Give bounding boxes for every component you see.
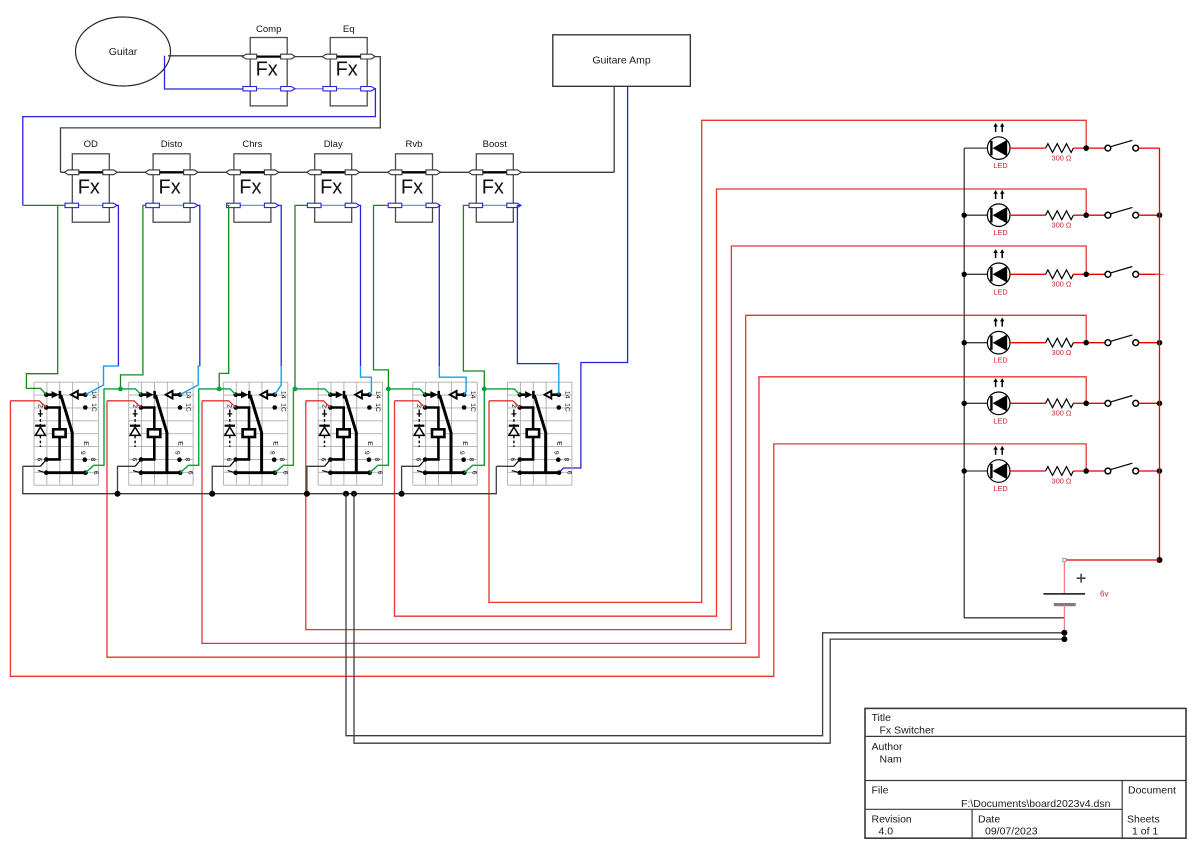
wire LED D3 anode to resistor (red)	[1010, 273, 1046, 275]
effect box Boost output pin (right, signal row)	[507, 170, 521, 175]
LED D1 circle	[987, 137, 1010, 160]
svg-text:LED: LED	[993, 228, 1007, 237]
relay K1 bottom thick wire to pin 8	[46, 471, 85, 474]
rail junction node right row 5	[1157, 401, 1163, 407]
svg-text:2: 2	[131, 404, 138, 408]
svg-text:8: 8	[89, 458, 96, 462]
wire green pedal4 send vertical	[295, 205, 307, 389]
switch SW2 throw circle	[1133, 212, 1139, 218]
relay K1 flyback diode cathode bar	[35, 425, 45, 427]
effect box Disto: wire through (black thick)	[147, 171, 196, 173]
svg-text:9: 9	[174, 451, 181, 455]
relay K3 coil rectangle	[243, 429, 255, 437]
svg-text:1C: 1C	[279, 403, 286, 412]
effect box Rvb output pin (right, signal row)	[426, 170, 440, 175]
effect box Boost input pin (left, signal row)	[468, 170, 482, 175]
svg-text:Fx: Fx	[78, 177, 100, 199]
svg-text:6: 6	[471, 471, 478, 475]
relay K5 contact arm diode (filled)	[425, 393, 430, 396]
rail junction node right row 4	[1157, 340, 1163, 346]
svg-text:Fx: Fx	[482, 177, 504, 199]
LED D6 triangle	[993, 463, 1008, 480]
relay K1 pin 14 open triangle contact	[71, 391, 78, 399]
effect box Eq input pin (left, signal row)	[322, 54, 336, 59]
relay K1 pin 1 throw tick	[38, 471, 45, 473]
effect box Disto send pin (right, blue row)	[184, 203, 198, 207]
relay K5 coil top lead (thick)	[425, 408, 438, 430]
wire green branch to relay2 pin8	[180, 389, 219, 473]
switch SW6 throw circle	[1133, 468, 1139, 474]
junction node row 4	[1083, 340, 1089, 346]
wire green branch to relay6 common	[484, 389, 520, 395]
effect box Comp return pin (left, blue row)	[243, 87, 257, 91]
wire relay6 pin1 to bus	[496, 465, 514, 467]
effect box OD outline	[72, 154, 109, 222]
LED D3 circle	[987, 263, 1010, 286]
switch common rail (red)	[1159, 148, 1161, 560]
effect box Dlay: wire through (blue)	[309, 204, 358, 206]
wire blue pedal2 output vertical	[198, 205, 200, 366]
wire blue pedal3 output vertical	[278, 205, 281, 366]
relay K1 pin 16 dot	[83, 405, 88, 410]
relay K2 pin 9 dot	[177, 457, 182, 462]
svg-text:1C: 1C	[185, 403, 192, 412]
green junction node pedal4	[293, 387, 298, 392]
wire Eq output down-left to pedal row (black)	[61, 57, 381, 173]
svg-text:Document: Document	[1128, 784, 1176, 796]
svg-text:LED: LED	[993, 287, 1007, 296]
LED D4 cathode wire	[964, 342, 987, 344]
relay K1 flyback diode triangle	[35, 427, 45, 435]
effect box Rvb return pin (left, blue row)	[388, 203, 402, 207]
wire blue pedal1 output vertical	[117, 205, 119, 366]
LED D5 cathode wire	[964, 402, 987, 404]
svg-text:Revision: Revision	[872, 813, 912, 825]
effect box Rvb send pin (right, blue row)	[426, 203, 440, 207]
relay K2 flyback diode triangle	[130, 427, 140, 435]
effect box Comp send pin (right, blue row)	[281, 87, 295, 91]
wire red relay4 coil feed into pin2	[306, 401, 331, 408]
wire cyan pedal1 to relay1 pin14	[85, 366, 118, 395]
relay K5 common pin 13 dot	[423, 392, 428, 397]
relay K6 bottom thick wire to pin 8	[520, 471, 559, 474]
wire red relay1 coil feed into pin2	[10, 401, 46, 408]
effect box Comp input pin (left, signal row)	[242, 54, 256, 59]
junction node row 6	[1083, 468, 1089, 474]
svg-text:LED: LED	[993, 356, 1007, 365]
wire switch SW3 to rail (red)	[1139, 273, 1160, 275]
svg-text:E: E	[177, 441, 184, 446]
wire relay1 pin1 to bus	[23, 465, 41, 467]
relay K3 pin 1 dot	[233, 470, 238, 475]
battery negative junction nodes	[1061, 630, 1067, 636]
LED D4 circle	[987, 331, 1010, 354]
relay K4 bottom thick wire to pin 8	[330, 471, 369, 474]
resistor R6 zigzag	[1046, 467, 1074, 476]
relay K4 coil + pin 2 dot	[328, 405, 333, 410]
relay K2 pin 6 dot	[139, 457, 144, 462]
relay K4 flyback diode triangle	[320, 427, 330, 435]
svg-text:6: 6	[281, 471, 288, 475]
relay K4 pin 9 dot	[367, 457, 372, 462]
svg-text:E: E	[556, 441, 563, 446]
green junction node pedal3	[217, 387, 222, 392]
svg-text:Title: Title	[872, 712, 892, 724]
LED D6 emission arrows	[995, 449, 997, 455]
relay K5 grid	[413, 382, 477, 485]
guitar (source) ellipse	[76, 17, 171, 86]
relay K3 contact arm (thick diagonal)	[250, 395, 261, 472]
relay K3 pin 14 lead and dot	[267, 393, 275, 396]
svg-text:6: 6	[36, 458, 43, 462]
relay K4 pin 1 dot	[328, 470, 333, 475]
svg-text:2: 2	[320, 404, 327, 408]
svg-text:8: 8	[184, 458, 191, 462]
svg-text:Fx: Fx	[401, 177, 423, 199]
relay K5 coil + pin 2 dot	[423, 405, 428, 410]
relay K4 coil rectangle	[337, 429, 349, 437]
relay K1 flyback diode dashed lead bottom	[39, 436, 41, 447]
LED D1 cathode wire	[964, 147, 987, 149]
svg-text:Fx: Fx	[158, 177, 180, 199]
svg-text:9: 9	[268, 451, 275, 455]
wire green pedal6 send vertical	[463, 205, 484, 389]
battery B1 negative plate	[1054, 603, 1076, 606]
relay K6 flyback diode triangle	[509, 427, 519, 435]
LED D4 triangle	[993, 334, 1008, 351]
effect box Boost outline	[476, 154, 513, 222]
svg-text:F:\Documents\board2023v4.dsn: F:\Documents\board2023v4.dsn	[961, 798, 1111, 810]
wire bus to battery negative B (black)	[354, 494, 1064, 744]
relay K3 flyback diode triangle	[225, 427, 235, 435]
svg-text:14: 14	[469, 391, 476, 399]
LED D2 emission arrows	[995, 193, 997, 199]
effect box OD return pin (left, blue row)	[65, 203, 79, 207]
effect box Comp: wire through (blue)	[244, 88, 293, 90]
wire green branch to relay4 common	[295, 389, 330, 395]
svg-text:OD: OD	[84, 139, 98, 150]
bus junction node relay4	[304, 491, 310, 497]
relay K6 pin 6 dot	[518, 457, 523, 462]
relay K1 flyback diode dashed lead top	[39, 410, 41, 425]
relay K6 pin 1 dot	[518, 470, 523, 475]
bus tee nodes to battery return	[343, 491, 349, 497]
wire relay5 pin1 to bus	[402, 466, 420, 493]
relay K6 flyback diode dashed lead bottom	[513, 436, 515, 447]
effect box Comp: wire through (black thick)	[244, 55, 293, 57]
pedal signal chain wire (black)	[61, 171, 615, 173]
wire red relay1 to LED row 6 (nested loop)	[10, 401, 1086, 677]
svg-text:Date: Date	[978, 813, 1000, 825]
relay K5 pin 9 dot	[461, 457, 466, 462]
battery positive node	[1157, 557, 1163, 563]
LED D3 emission arrows	[995, 253, 997, 259]
effect box Disto input pin (left, signal row)	[145, 170, 159, 175]
relay K5 pin 1 dot	[423, 470, 428, 475]
relay K5 flyback diode cathode bar	[414, 425, 424, 427]
relay K1 pin 1 dot	[44, 470, 49, 475]
LED D6 circle	[987, 460, 1010, 483]
relay K6 pin 14 lead and dot	[551, 393, 559, 396]
svg-text:Boost: Boost	[483, 139, 508, 150]
relay K6 pin 1 throw tick	[512, 471, 519, 473]
wire amp input from Boost (black)	[613, 86, 615, 172]
relay K4 flyback diode dashed lead top	[324, 410, 326, 425]
wire LED D4 anode to resistor (red)	[1010, 342, 1046, 344]
svg-text:Fx: Fx	[320, 177, 342, 199]
wire green pedal1 to relay1 common	[26, 205, 57, 394]
effect box Chrs: wire through (blue)	[228, 204, 277, 206]
svg-text:1C: 1C	[564, 403, 571, 412]
switch SW1 throw circle	[1133, 145, 1139, 151]
switch SW3 pole circle	[1105, 271, 1111, 277]
LED D5 triangle	[993, 395, 1008, 412]
wire cyan pedal5 to relay5 pin14	[439, 366, 466, 395]
wire relay4 pin1 to bus	[307, 466, 325, 493]
relay K2 coil rectangle	[148, 429, 160, 437]
wire LED D2 anode to resistor (red)	[1010, 214, 1046, 216]
wire LED D1 anode to resistor (red)	[1010, 147, 1046, 149]
relay K6 flyback diode cathode bar	[509, 425, 519, 427]
wire cyan Boost to relay6 pin14	[557, 364, 559, 395]
svg-text:14: 14	[564, 391, 571, 399]
relay K6 flyback diode dashed lead top	[513, 410, 515, 425]
effect box Eq return pin (left, blue row)	[323, 87, 337, 91]
relay K3 plus polarity mark	[227, 413, 232, 415]
svg-text:8: 8	[468, 458, 475, 462]
relay K6 coil bottom lead (thick)	[520, 437, 533, 459]
relay K5 bottom thick wire to pin 8	[425, 471, 464, 474]
resistor R5 zigzag	[1046, 399, 1074, 408]
svg-text:300 Ω: 300 Ω	[1052, 476, 1072, 485]
switch SW4 pole circle	[1105, 340, 1111, 346]
relay K1 coil top lead (thick)	[46, 408, 59, 430]
relay K2 flyback diode cathode bar	[130, 425, 140, 427]
relay K2 contact arm (thick diagonal)	[156, 395, 167, 472]
rail junction node right row 6	[1157, 468, 1163, 474]
svg-text:Fx: Fx	[336, 59, 358, 81]
title block outer border	[865, 708, 1186, 838]
relay K2 common pin 13 dot	[139, 392, 144, 397]
svg-text:8: 8	[373, 458, 380, 462]
LED D5 circle	[987, 392, 1010, 415]
svg-text:2: 2	[36, 404, 43, 408]
svg-text:300 Ω: 300 Ω	[1052, 280, 1072, 289]
wire relay2 pin1 to bus	[118, 466, 136, 493]
switch SW3 throw circle	[1133, 271, 1139, 277]
wire green pedal3 send vertical	[219, 205, 229, 389]
relay K4 pin 6 dot	[328, 457, 333, 462]
svg-text:Sheets: Sheets	[1127, 813, 1160, 825]
wire green branch to relay4 pin8	[370, 389, 389, 473]
svg-text:1C: 1C	[374, 403, 381, 412]
relay K5 contact arm (thick diagonal)	[440, 395, 451, 472]
effect box Chrs send pin (right, blue row)	[264, 203, 278, 207]
wire red relay3 coil feed into pin2	[202, 401, 236, 408]
rail junction node right row 2	[1157, 212, 1163, 218]
relay K4 common pin 13 dot	[328, 392, 333, 397]
relay K4 pin 14 lead and dot	[362, 393, 370, 396]
relay K6 grid	[508, 382, 572, 485]
effect box Chrs output pin (right, signal row)	[264, 170, 278, 175]
effect box Eq outline	[330, 38, 367, 106]
relay K2 pin 16 dot	[178, 405, 183, 410]
LED D1 emission arrows	[995, 126, 997, 132]
wire cyan pedal4 to relay4 pin14	[361, 366, 372, 395]
effect box Boost: wire through (blue)	[470, 204, 519, 206]
wire switch SW6 to rail (red)	[1139, 470, 1160, 472]
wire LED D6 anode to resistor (red)	[1010, 470, 1046, 472]
resistor R4 zigzag	[1046, 338, 1074, 347]
relay K5 coil bottom lead (thick)	[425, 437, 438, 459]
junction node row 2	[1083, 212, 1089, 218]
effect box Comp output pin (right, signal row)	[281, 54, 295, 59]
relay K3 pin 14 open triangle contact	[260, 391, 267, 399]
relay K5 pin 14 lead and dot	[457, 393, 465, 396]
relay K3 pin 6 dot	[233, 457, 238, 462]
svg-text:1 of 1: 1 of 1	[1132, 826, 1158, 838]
svg-text:9: 9	[458, 451, 465, 455]
relay K3 pin 9 dot	[272, 457, 277, 462]
svg-text:Guitare Amp: Guitare Amp	[592, 55, 651, 67]
relay K4 contact arm (thick diagonal)	[345, 395, 356, 472]
relay K4 flyback diode cathode bar	[319, 425, 329, 427]
svg-text:Comp: Comp	[256, 24, 281, 35]
wire green branch to relay3 common	[219, 389, 236, 395]
wire red relay2 to LED row 5 (nested loop)	[107, 377, 1086, 657]
switch SW2 lever	[1111, 207, 1133, 213]
svg-text:8: 8	[278, 458, 285, 462]
LED D2 cathode bar	[990, 208, 992, 222]
LED cathode rail (black)	[964, 148, 1064, 618]
relay K3 grid	[223, 382, 287, 485]
switch SW4 lever	[1111, 335, 1133, 341]
wire red relay2 coil feed into pin2	[107, 401, 141, 408]
wire guitar send drop (blue)	[165, 56, 244, 89]
relay K2 plus polarity mark	[133, 413, 138, 415]
effect box OD: wire through (blue)	[66, 204, 115, 206]
effect box OD: wire through (black thick)	[66, 171, 115, 173]
svg-text:Disto: Disto	[161, 139, 183, 150]
LED D4 emission arrows	[995, 321, 997, 327]
effect box OD output pin (right, signal row)	[103, 170, 117, 175]
green junction node pedal6	[482, 387, 487, 392]
wire resistor R4 to junction (red)	[1073, 342, 1105, 344]
wire switch SW1 to rail (red)	[1139, 147, 1160, 149]
relay K4 coil bottom lead (thick)	[330, 437, 343, 459]
wire resistor R5 to junction (red)	[1073, 402, 1105, 404]
relay K6 coil top lead (thick)	[520, 408, 533, 430]
relay K4 pin 1 throw tick	[322, 471, 329, 473]
effect box Rvb: wire through (blue)	[390, 204, 439, 206]
switch SW5 lever	[1111, 396, 1133, 402]
relay K1 pin 9 dot	[83, 457, 88, 462]
switch SW6 pole circle	[1105, 468, 1111, 474]
svg-text:9: 9	[79, 451, 86, 455]
switch SW5 pole circle	[1105, 400, 1111, 406]
svg-text:File: File	[872, 784, 889, 796]
relay K5 pin 1 throw tick	[417, 471, 424, 473]
svg-text:Author: Author	[872, 741, 903, 753]
resistor R1 zigzag	[1046, 144, 1074, 153]
wire battery positive to rail (red)	[1064, 559, 1159, 561]
wire blue pedal6 output (Boost)	[517, 205, 557, 363]
relay K1 plus polarity mark	[38, 413, 43, 415]
battery B1 positive plate	[1043, 593, 1085, 595]
relay K2 pin 1 throw tick	[133, 471, 140, 473]
wire green branch to relay2 common	[121, 389, 142, 395]
effect box Dlay: wire through (black thick)	[309, 171, 358, 173]
relay K1 grid	[34, 382, 98, 485]
wire switch SW5 to rail (red)	[1139, 402, 1160, 404]
effect box Eq send pin (right, blue row)	[361, 87, 375, 91]
LED D5 cathode bar	[990, 396, 992, 410]
LED D3 cathode wire	[964, 273, 987, 275]
svg-text:2: 2	[415, 404, 422, 408]
svg-text:300 Ω: 300 Ω	[1052, 221, 1072, 230]
effect box Chrs outline	[234, 154, 271, 222]
effect box Chrs input pin (left, signal row)	[226, 170, 240, 175]
svg-text:1C: 1C	[90, 403, 97, 412]
relay K1 contact arm (thick diagonal)	[61, 395, 72, 472]
rail junction node row 6	[962, 468, 967, 473]
relay K1 coil bottom lead (thick)	[46, 437, 59, 459]
relay K6 pin 14 open triangle contact	[545, 391, 552, 399]
svg-text:6v: 6v	[1100, 590, 1108, 599]
wire red relay6 to LED row 1 (nested loop)	[489, 120, 1086, 602]
rail junction node row 5	[962, 401, 967, 406]
effect box Eq output pin (right, signal row)	[361, 54, 375, 59]
relay K3 coil bottom lead (thick)	[236, 437, 249, 459]
svg-text:6: 6	[187, 471, 194, 475]
relay K4 switch throw to pin 6	[325, 460, 331, 467]
relay K2 coil bottom lead (thick)	[141, 437, 154, 459]
relay ground bus (black)	[23, 466, 497, 493]
wire switch SW2 to rail (red)	[1139, 214, 1160, 216]
title block column dividers	[1121, 781, 1123, 839]
wire relay3 pin1 to bus	[212, 466, 230, 493]
relay K6 plus polarity mark	[511, 413, 516, 415]
svg-text:LED: LED	[993, 161, 1007, 170]
svg-text:Rvb: Rvb	[406, 139, 423, 150]
wire green branch to relay1 pin8	[86, 389, 121, 473]
wire red relay3 to LED row 4 (nested loop)	[202, 315, 1086, 643]
LED D3 cathode bar	[990, 267, 992, 281]
effect box OD send pin (right, blue row)	[103, 203, 117, 207]
svg-text:E: E	[366, 441, 373, 446]
battery terminal square	[1063, 558, 1066, 561]
svg-text:8: 8	[562, 458, 569, 462]
relay K4 pin 16 dot	[367, 405, 372, 410]
switch SW3 lever	[1111, 267, 1133, 273]
relay K3 contact arm diode (filled)	[236, 393, 241, 396]
effect box Chrs return pin (left, blue row)	[227, 203, 241, 207]
relay K1 pin 6 dot	[44, 457, 49, 462]
relay K4 contact arm diode (filled)	[330, 393, 335, 396]
effect box Eq: wire through (blue)	[324, 88, 373, 90]
effect box Dlay send pin (right, blue row)	[345, 203, 359, 207]
effect box Rvb input pin (left, signal row)	[388, 170, 402, 175]
junction node row 1	[1083, 145, 1089, 151]
rail tap mark row 3	[1155, 273, 1163, 275]
relay K5 coil rectangle	[432, 429, 444, 437]
relay K3 bottom thick wire to pin 8	[236, 471, 275, 474]
LED D6 cathode wire	[964, 470, 987, 472]
svg-text:1C: 1C	[469, 403, 476, 412]
wire red relay4 to LED row 3 (nested loop)	[306, 246, 1086, 630]
relay K5 pin 6 dot	[423, 457, 428, 462]
relay K6 contact arm (thick diagonal)	[534, 395, 545, 472]
